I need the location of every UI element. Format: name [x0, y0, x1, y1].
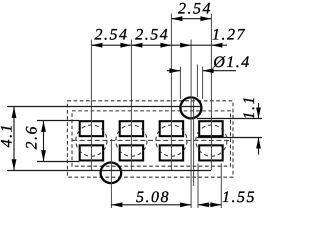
pad B4 bottom row col4 [199, 145, 222, 160]
arrowhead 2.54b right [160, 43, 171, 48]
dimension line 1.1 upper [258, 103, 260, 119]
extension line aux above pads col4 [196, 65, 198, 98]
dimension line row2 [91, 44, 227, 46]
pads 8x with thick border [80, 121, 223, 160]
extension line hole H1 right tangent [202, 67, 204, 100]
extension line col1 [90, 40, 92, 171]
extension line col2 [130, 40, 132, 171]
extension line pad A4 right edge [220, 164, 222, 209]
arrowhead dia1.4 left [169, 68, 180, 73]
body outline inner dashed box [72, 111, 231, 166]
extension line pads top left [37, 120, 79, 122]
hole H1 top 1.4mm [180, 97, 201, 118]
dimension line dia 1.4 left tail [167, 70, 180, 72]
pad B3 bottom row col3 [160, 145, 183, 160]
pad B2 bottom row col2 [120, 145, 143, 160]
svg-text:1.1: 1.1 [241, 95, 258, 120]
extension line col3 [170, 14, 172, 171]
pad A4 top row col4 [199, 121, 222, 136]
pad A1 top row col1 [80, 121, 103, 136]
arrowhead 1.27 left outside [180, 43, 191, 48]
arrowhead 2.54 top right [200, 16, 211, 21]
extension line pads bottom left [37, 161, 79, 163]
arrowhead 2.54 top left [171, 16, 182, 21]
extension line lead tips bottom [7, 170, 211, 172]
extension line pad bottom right [197, 137, 262, 139]
pin circle column 3 [156, 125, 187, 156]
arrowhead 2.6 top [41, 121, 46, 132]
svg-text:1.55: 1.55 [222, 189, 256, 206]
dimension line 2.6 [43, 121, 45, 162]
hole H2 bottom 1.4mm [101, 163, 122, 184]
extension line pad A4 left edge [197, 164, 199, 209]
extension line hole H1 axis [190, 40, 192, 209]
extension line pad top right [197, 118, 262, 120]
arrowhead 5.08 right [180, 202, 191, 207]
dimension line dia 1.4 right tail [203, 70, 236, 72]
arrowhead 1.55 right [210, 202, 221, 207]
body outline outer dashed box [67, 101, 233, 177]
dimension line 1.1 lower [258, 138, 260, 155]
svg-text:5.08: 5.08 [136, 189, 170, 206]
svg-text:2.54: 2.54 [95, 27, 129, 44]
arrowhead 2.54b left [131, 43, 142, 48]
arrowhead 1.1 top outside [256, 108, 261, 119]
arrowhead 2.54a left [91, 43, 102, 48]
arrowhead 4.1 bottom [12, 159, 17, 170]
arrowhead dia1.4 right [203, 68, 214, 73]
svg-text:2.54: 2.54 [135, 27, 169, 44]
dimension line bottom 1.55 [198, 204, 221, 206]
arrowhead 1.1 bottom outside [256, 138, 261, 149]
arrowhead 1.55 left [198, 202, 209, 207]
pin circle column 4 [196, 125, 227, 156]
pad B1 bottom row col1 [80, 145, 103, 160]
dimension line 4.1 [13, 107, 15, 171]
arrowhead 2.6 bottom [41, 150, 46, 161]
pad A2 top row col2 [120, 121, 143, 136]
dimension line bottom 5.08 [111, 204, 191, 206]
extension line hole H1 left tangent [179, 67, 181, 100]
pad A3 top row col3 [160, 121, 183, 136]
svg-text:2.54: 2.54 [178, 0, 212, 17]
dimension line 2.54 top [171, 18, 211, 20]
svg-text:4.1: 4.1 [0, 123, 16, 148]
extension line aux right of hole H1 [193, 98, 195, 186]
pin circle column 1 [76, 125, 107, 156]
arrowhead 5.08 left [111, 202, 122, 207]
centerline row axis [72, 139, 231, 141]
arrowhead 2.54a right [120, 43, 131, 48]
extension line col4 [210, 14, 212, 171]
pin circle column 2 [116, 125, 147, 156]
svg-text:1.27: 1.27 [212, 27, 246, 44]
svg-text:Ø1.4: Ø1.4 [212, 54, 251, 71]
arrowhead 1.27 right outside [211, 43, 222, 48]
svg-text:2.6: 2.6 [24, 125, 41, 150]
arrowhead 4.1 top [12, 107, 17, 118]
extension line lead tips top [7, 106, 202, 108]
extension line hole H2 axis [110, 139, 112, 208]
